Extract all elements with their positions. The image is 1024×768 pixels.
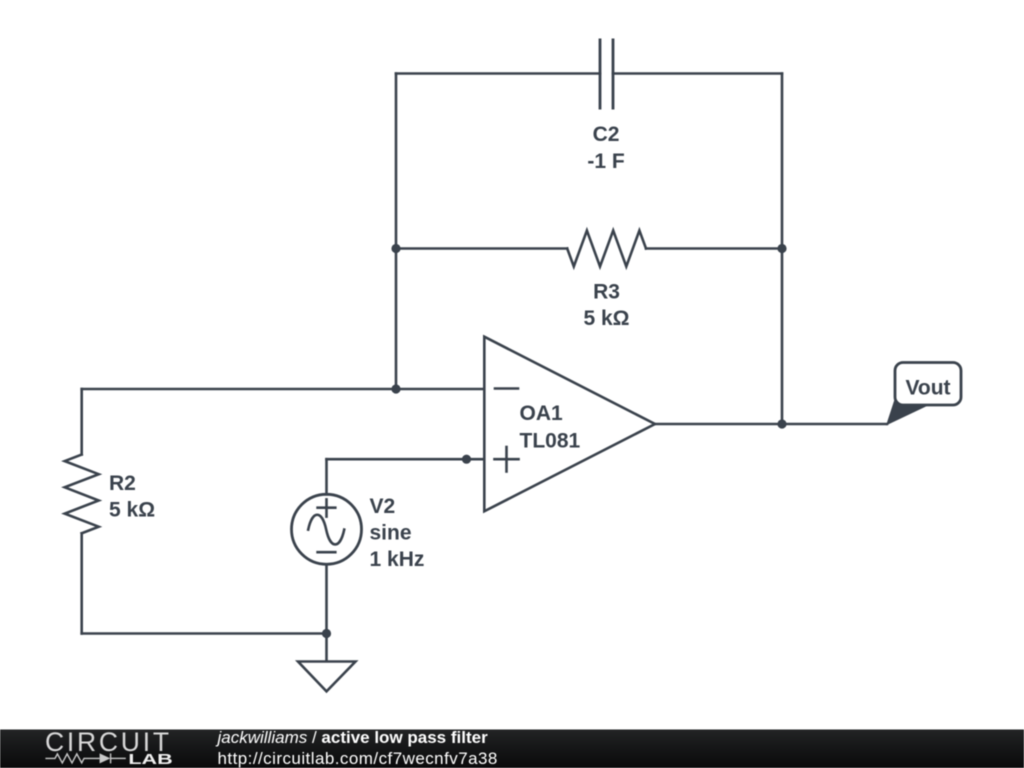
- resistor R3: [567, 231, 646, 267]
- svg-text:OA1: OA1: [520, 402, 564, 425]
- svg-text:R2: R2: [109, 472, 136, 495]
- footer bar: [0, 730, 1024, 768]
- svg-text:LAB: LAB: [128, 752, 172, 768]
- wire bottom horizontal: [82, 632, 327, 635]
- wire inverting input: [82, 388, 484, 391]
- wire left rail top: [80, 389, 83, 455]
- svg-text:jackwilliams / active low pass: jackwilliams / active low pass filter: [216, 728, 489, 747]
- wire V2 bottom lead: [325, 564, 328, 633]
- op-amp OA1: [484, 337, 655, 512]
- wire left vertical riser: [395, 74, 398, 390]
- ground: [298, 662, 356, 692]
- wire top-right horizontal (C2 right lead): [613, 72, 782, 75]
- wire R3 right lead: [646, 247, 782, 250]
- logo resistor-diode glyph: [45, 753, 125, 763]
- junction node at R3 right: [777, 244, 786, 253]
- svg-text:1 kHz: 1 kHz: [370, 548, 425, 571]
- svg-text:5 kΩ: 5 kΩ: [583, 307, 629, 330]
- junction node at R3 left: [391, 244, 400, 253]
- junction node at ground: [322, 629, 331, 638]
- wire non-inverting input: [327, 458, 485, 461]
- wire left rail bottom: [80, 533, 83, 633]
- node Vout flag: [886, 363, 961, 426]
- svg-text:-1 F: -1 F: [587, 150, 625, 173]
- svg-text:TL081: TL081: [520, 430, 581, 453]
- wire output: [655, 423, 887, 426]
- junction node at non-inverting input: [462, 455, 471, 464]
- voltage source V2: [292, 494, 362, 564]
- wire right vertical riser: [781, 74, 784, 425]
- wire top-left horizontal (C2 left lead): [396, 72, 600, 75]
- svg-text:C2: C2: [593, 123, 620, 146]
- svg-text:sine: sine: [370, 522, 412, 545]
- junction node at output: [777, 419, 786, 428]
- resistor R2: [65, 455, 99, 534]
- wire V2 top lead: [325, 459, 328, 494]
- svg-text:R3: R3: [593, 281, 620, 304]
- svg-text:5 kΩ: 5 kΩ: [109, 499, 155, 522]
- capacitor C2: [600, 39, 613, 110]
- svg-text:V2: V2: [370, 495, 396, 518]
- wire R3 left lead: [396, 247, 567, 250]
- junction node at inverting input: [391, 384, 400, 393]
- svg-text:Vout: Vout: [905, 377, 950, 400]
- svg-text:http://circuitlab.com/cf7wecnf: http://circuitlab.com/cf7wecnfv7a38: [218, 749, 498, 768]
- wire ground stub: [325, 634, 328, 662]
